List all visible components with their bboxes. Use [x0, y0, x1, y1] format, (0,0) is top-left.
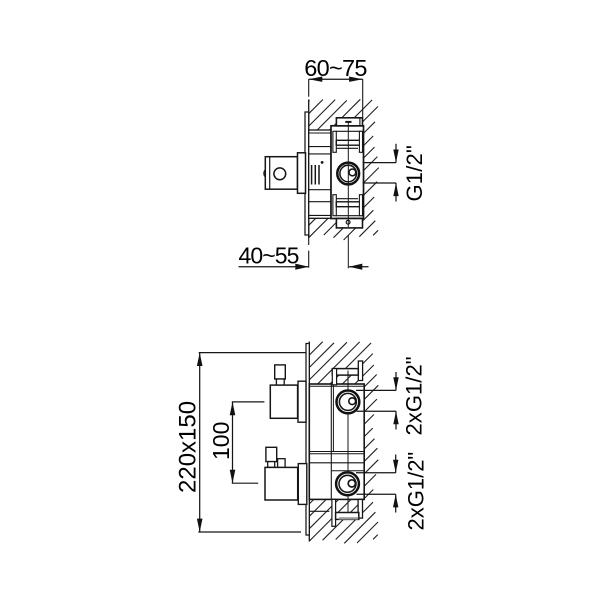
top mounting bracket (front view)	[332, 361, 362, 385]
vertical centerline (front view)	[347, 371, 349, 513]
lower inlet circle outer	[336, 472, 359, 495]
rough-in housing rear section	[309, 130, 331, 218]
svg-text:220x150: 220x150	[174, 401, 201, 493]
outlet small port circle	[349, 169, 356, 176]
G1/2 upper arrow	[393, 144, 398, 163]
upper inlet circle inner	[339, 393, 356, 410]
bottom tab screw hole	[346, 220, 350, 224]
G1/2 outlet circle inner	[340, 165, 357, 182]
100 dimension line	[232, 402, 234, 483]
lower inlet small port	[348, 480, 355, 487]
body internal vertical lines	[331, 384, 333, 499]
vent slots mark III with dot	[312, 161, 324, 185]
wall hatching (top view section)	[309, 99, 379, 240]
upper handle knob	[275, 365, 286, 379]
wall front face line (front view)	[308, 342, 310, 542]
handle spindle box (protruding left)	[264, 157, 298, 190]
svg-text:60~75: 60~75	[304, 55, 367, 81]
dimension G1/2" lower line	[363, 182, 396, 184]
upper handle stem	[276, 379, 284, 385]
body internal lower bracket	[333, 195, 363, 216]
dimension G1/2" upper line	[363, 162, 396, 164]
housing internal lines	[309, 133, 331, 215]
G1/2 outlet circle outer	[337, 163, 359, 185]
40~55 leader arrow to centerline	[349, 264, 369, 270]
220x150 top arrow	[197, 353, 203, 366]
dimension 60~75 line with arrowheads	[309, 77, 363, 82]
wall front face line (top view)	[308, 100, 310, 238]
100 top tick	[232, 401, 265, 403]
body internal horizontal lines	[309, 386, 364, 471]
upper inlet circle outer	[337, 391, 360, 414]
upper 2xG1/2 bottom arrow	[393, 411, 398, 429]
60~75 left extension line	[308, 79, 310, 97]
wall hatching (front view section)	[309, 342, 378, 544]
lower handle flange	[298, 464, 307, 505]
handle flange	[298, 153, 306, 194]
G1/2 lower arrow	[393, 183, 398, 202]
svg-text:40~55: 40~55	[238, 242, 298, 268]
lower 2xG1/2 bottom line	[357, 493, 396, 495]
upper 2xG1/2 top arrow	[393, 372, 398, 390]
lower 2xG1/2 bottom arrow	[393, 494, 398, 512]
lower inlet circle inner	[339, 475, 356, 492]
upper inlet small port	[349, 398, 356, 405]
100 top arrow	[230, 402, 236, 415]
lower handle big knob	[266, 447, 277, 461]
lower 2xG1/2 top line	[356, 472, 396, 474]
40~55 dashed extension of wall face	[308, 235, 310, 245]
centerline extension below wall	[347, 235, 349, 268]
plaster guard plate (top view)	[305, 112, 309, 235]
handle screw circle	[274, 168, 286, 180]
100 bottom tick	[232, 482, 258, 484]
100 bottom arrow	[230, 470, 236, 483]
upper handle box	[270, 385, 297, 418]
upper handle flange	[298, 381, 306, 422]
svg-text:2xG1/2": 2xG1/2"	[403, 452, 428, 531]
body internal upper bracket	[333, 131, 363, 152]
lower 2xG1/2 top arrow	[393, 455, 398, 473]
top mounting tab	[336, 118, 362, 126]
220x150 dimension line	[199, 353, 201, 532]
lower handle big knob stem	[268, 462, 275, 468]
220x150 bottom tick	[198, 531, 301, 533]
valve main body (top view)	[331, 126, 364, 219]
bottom mounting bracket (front view)	[309, 499, 362, 526]
upper 2xG1/2 top line	[356, 389, 396, 391]
svg-text:100: 100	[208, 422, 234, 460]
top tab T mark	[345, 121, 351, 123]
vertical centerline of valve (top view)	[347, 122, 349, 227]
220x150 bottom arrow	[197, 519, 203, 532]
top tab inner line	[359, 118, 361, 126]
bottom mounting tab	[336, 219, 362, 228]
60~75 right extension line	[362, 79, 364, 117]
svg-text:2xG1/2": 2xG1/2"	[402, 356, 427, 435]
40~55 arrow line toward wall face	[239, 264, 309, 270]
220x150 top tick	[199, 352, 306, 354]
lower handle box	[265, 467, 298, 500]
valve main body (front view)	[309, 384, 364, 499]
upper 2xG1/2 bottom line	[357, 410, 397, 412]
plaster guard plate (front view)	[306, 344, 309, 536]
lower handle small knob	[278, 459, 286, 468]
svg-text:G1/2": G1/2"	[402, 145, 427, 202]
